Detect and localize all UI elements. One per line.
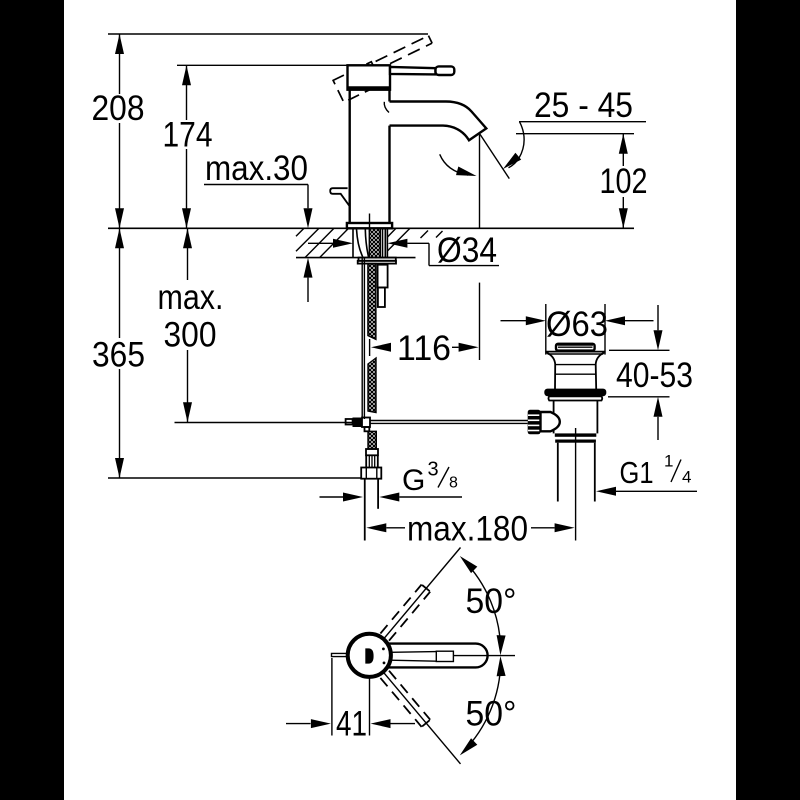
top view detail dots bbox=[382, 648, 385, 651]
dim max.180 bbox=[366, 523, 386, 532]
dim G1 1/4 arrow bbox=[596, 487, 616, 496]
faucet handle lever (horizontal) bbox=[390, 67, 436, 75]
faucet body left edge bbox=[349, 90, 351, 223]
dim 102 extension line bbox=[516, 133, 634, 135]
dim max.300 vertical line bbox=[187, 228, 189, 280]
dim max.30 arrow below counter bbox=[304, 258, 313, 278]
svg-text:G: G bbox=[402, 464, 425, 497]
mounting hole right edge bbox=[386, 228, 388, 257]
dim Ø34 arrows at mounting hole bbox=[308, 242, 334, 244]
water stream diagonal line bbox=[480, 134, 509, 178]
svg-text:25 - 45: 25 - 45 bbox=[534, 86, 633, 125]
mounting washer under counter bbox=[359, 258, 396, 261]
drain body sides bbox=[553, 401, 555, 434]
dim G3/8 arrows bbox=[320, 496, 344, 498]
svg-text:Ø63: Ø63 bbox=[546, 305, 608, 344]
dim 365 vertical line bbox=[119, 228, 121, 338]
hose ribbed section bbox=[366, 455, 378, 467]
horizontal pop-up rod to drain bbox=[370, 420, 528, 422]
G3/8 connection nut bbox=[361, 468, 381, 479]
dim 174 extension line bbox=[177, 64, 348, 66]
top view dashed lever lower position bbox=[380, 671, 430, 727]
faucet spout bbox=[390, 102, 487, 141]
dim 41 arrows bbox=[286, 723, 311, 725]
svg-text:50°: 50° bbox=[466, 582, 517, 621]
top view dashed lever upper position bbox=[380, 585, 430, 641]
faucet pull-rod knob bbox=[330, 188, 350, 206]
top view lever centerline bbox=[454, 655, 516, 657]
pull rod vertical bbox=[361, 258, 363, 419]
faucet cap (cartridge cover) bbox=[348, 65, 391, 89]
stream swivel arc arrow bbox=[440, 154, 468, 175]
top view lever inner slot bbox=[390, 651, 436, 654]
svg-text:208: 208 bbox=[92, 89, 145, 128]
faucet base escutcheon bbox=[347, 223, 392, 228]
svg-text:4: 4 bbox=[682, 468, 691, 487]
spout outlet vertical extension line bbox=[479, 134, 481, 227]
svg-text:3: 3 bbox=[428, 458, 439, 480]
dim 365 bottom extension line bbox=[108, 477, 362, 479]
svg-text:300: 300 bbox=[164, 316, 217, 355]
dim 25-45 curved leader arrow bbox=[509, 122, 525, 168]
G3/8 pipe end bbox=[364, 479, 366, 541]
svg-text:102: 102 bbox=[600, 162, 648, 201]
drain flange neck taper bbox=[547, 353, 556, 390]
spout joint fillet bbox=[384, 102, 389, 113]
svg-text:Ø34: Ø34 bbox=[437, 231, 497, 270]
top view cartridge D mark bbox=[365, 648, 373, 663]
faucet body right edge lower bbox=[388, 126, 390, 223]
hose segment upper bbox=[368, 264, 376, 340]
svg-text:40-53: 40-53 bbox=[616, 356, 693, 395]
dim max.30 leader underline bbox=[204, 184, 308, 186]
dim 25-45 leader underline bbox=[519, 121, 646, 123]
dim max.30 arrow to counter top bbox=[307, 185, 309, 209]
faucet body right edge upper bbox=[388, 90, 390, 102]
svg-text:max.180: max.180 bbox=[407, 510, 528, 549]
counter underside line bbox=[296, 257, 416, 259]
top view 50 deg upper arc bbox=[463, 560, 501, 650]
right black pillar bar bbox=[736, 0, 800, 800]
drain tailpipe bbox=[557, 443, 559, 502]
drain plug cap bbox=[556, 344, 595, 351]
svg-text:365: 365 bbox=[92, 336, 145, 375]
hose lower white collar bbox=[366, 449, 378, 455]
drain o-ring seal (black) bbox=[544, 389, 606, 397]
pull rod T-joint lower nub bbox=[365, 427, 370, 431]
drain flange top bbox=[546, 351, 605, 353]
dim 40-53 lower arrow bbox=[654, 397, 663, 417]
hose segment through counter bbox=[369, 229, 380, 258]
braided supply hose (crosshatched) bbox=[368, 229, 380, 450]
drain knurled knob bbox=[528, 410, 541, 435]
dim Ø63 lines and arrows bbox=[501, 320, 527, 322]
svg-text:G1: G1 bbox=[620, 455, 654, 490]
left black pillar bar bbox=[0, 0, 64, 800]
faucet centerline into shank bbox=[369, 214, 371, 233]
svg-text:max.30: max.30 bbox=[205, 149, 308, 188]
counter hatching bbox=[296, 228, 443, 257]
dim 40-53 upper arrow bbox=[657, 305, 659, 330]
hose segment lower bbox=[368, 431, 376, 449]
top view lever (stadium) bbox=[388, 644, 488, 668]
svg-text:41: 41 bbox=[336, 705, 367, 744]
svg-text:max.: max. bbox=[158, 278, 224, 317]
dim 116 arrows bbox=[371, 343, 391, 352]
dim 174 vertical line bbox=[186, 65, 188, 120]
dim 208 vertical line bbox=[119, 34, 121, 94]
threaded stud lines in hole bbox=[382, 229, 384, 258]
top view 50 deg lower arc bbox=[463, 662, 501, 752]
dim max.300 bottom extension line bbox=[175, 422, 353, 424]
counter top surface line bbox=[108, 227, 634, 229]
pull rod T-joint black block bbox=[353, 418, 363, 428]
top view spout direction tab bbox=[332, 653, 348, 656]
mounting hole left edge bbox=[352, 228, 354, 257]
dim 102 vertical line bbox=[622, 134, 624, 166]
svg-text:8: 8 bbox=[449, 475, 458, 492]
top view faucet body circle bbox=[348, 634, 391, 677]
rod guide block bbox=[378, 265, 388, 288]
drain washer under seal bbox=[549, 396, 603, 400]
dim 41 extension lines bbox=[331, 658, 333, 736]
top view 50 deg lower ray bbox=[384, 673, 461, 764]
pull rod T-joint square bbox=[362, 418, 370, 428]
dim 208 extension top line bbox=[108, 33, 428, 35]
hose segment middle bbox=[368, 358, 376, 413]
drain centerline bbox=[575, 428, 577, 541]
pull rod T-joint end cap bbox=[346, 419, 353, 425]
bent hoses inside hole bbox=[357, 229, 363, 257]
dim 116 tick at hose bbox=[369, 339, 371, 356]
drain slip joint bands bbox=[555, 433, 597, 436]
top view 50 deg upper ray bbox=[384, 548, 461, 639]
faucet dashed handle lever (raised position) bbox=[333, 34, 438, 102]
svg-text:116: 116 bbox=[397, 329, 451, 368]
svg-text:1: 1 bbox=[664, 452, 673, 471]
svg-text:50°: 50° bbox=[466, 695, 517, 734]
drain lever bell housing bbox=[541, 412, 560, 431]
